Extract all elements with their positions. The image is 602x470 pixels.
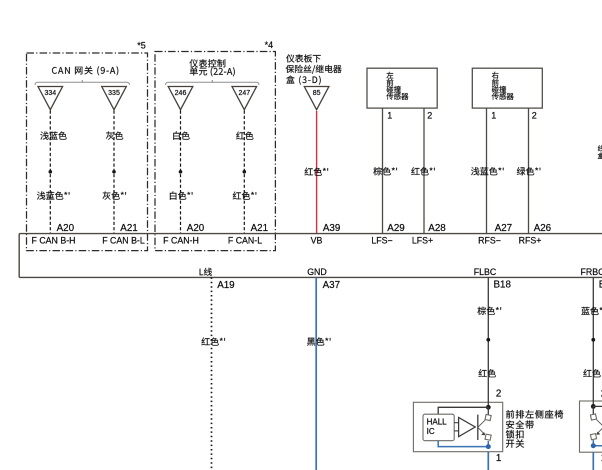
component box: front right seat belt buckle switch (clipped)	[580, 401, 602, 452]
svg-text:A27: A27	[495, 223, 512, 234]
svg-text:F CAN-L: F CAN-L	[228, 236, 262, 246]
label 前排左侧座椅	[506, 410, 563, 419]
blue junction inside right buckle switch	[591, 443, 596, 448]
label HALL IC	[427, 418, 448, 436]
internal wire right (dark)	[593, 405, 602, 407]
net RFS+	[519, 236, 542, 246]
upper contact square	[485, 414, 491, 420]
svg-text:IC: IC	[427, 427, 435, 436]
wire color label 棕色* (FLBC)	[478, 307, 502, 315]
connector cavity 335	[102, 87, 127, 110]
junction on wire 335	[112, 170, 116, 174]
label 右前碰撞传感器 (right)	[492, 72, 514, 100]
wire 247 to A21 (dashed)	[243, 111, 245, 234]
wire junction to right collector contact	[592, 406, 594, 414]
label 仪表板下	[286, 54, 321, 62]
pin label B17 (clipped)	[599, 279, 602, 290]
internal blue wire (hall ic to emitter)	[438, 441, 488, 447]
svg-text:A19: A19	[217, 280, 234, 291]
connector cavity 247	[232, 87, 257, 110]
label 左前碰撞传感器 (left)	[386, 72, 408, 100]
net FRBC	[581, 267, 602, 277]
svg-text:LFS+: LFS+	[412, 236, 433, 246]
wire color label 红色* (LFS+)	[411, 167, 435, 175]
net LFS-	[371, 236, 392, 246]
buffer amplifier triangle	[459, 417, 476, 436]
pin label A39	[323, 223, 340, 234]
label 锁扣	[506, 430, 524, 439]
wire color label 红色*	[233, 192, 256, 200]
svg-text:A20: A20	[57, 223, 75, 234]
svg-text:A29: A29	[387, 223, 404, 234]
svg-text:1: 1	[387, 111, 392, 121]
svg-text:A21: A21	[251, 223, 268, 234]
svg-text:HALL: HALL	[427, 418, 448, 427]
svg-text:A21: A21	[120, 223, 137, 234]
svg-text:F CAN B-H: F CAN B-H	[32, 236, 76, 246]
component box: right front impact sensor	[472, 68, 542, 108]
wire VB (red)	[316, 111, 318, 234]
pin label A29	[387, 223, 404, 234]
label 单元 (22-A)	[190, 67, 235, 76]
blue junction inside buckle switch	[486, 444, 491, 449]
wire 335 to A21 (dashed)	[113, 111, 115, 234]
pin label A26	[534, 223, 552, 234]
wire color label 红色	[236, 132, 253, 140]
junction on wire 246	[179, 170, 183, 174]
pin label A19	[217, 280, 234, 291]
net LFS+	[412, 236, 433, 246]
clipped label 线/盒 (right edge)	[598, 145, 602, 159]
wire RFS-	[486, 108, 488, 233]
net GND	[307, 267, 327, 277]
junction on FRBC wire	[591, 338, 595, 342]
wire color label 绿色* (RFS+)	[517, 167, 541, 175]
pin number 2 (right buckle switch)	[601, 389, 602, 400]
wire FLBC upper	[487, 277, 489, 403]
net F CAN B-H	[32, 236, 76, 246]
label 开关	[506, 439, 524, 447]
wire LFS+	[423, 108, 425, 233]
pin label A28	[428, 223, 446, 234]
net F CAN-L	[228, 236, 262, 246]
wire from right buckle switch pin1 (blue)	[592, 452, 594, 470]
wire color label 红色 (FRBC)	[583, 369, 600, 377]
pin number 2 (left buckle switch)	[496, 389, 501, 400]
wire RFS+	[528, 108, 530, 233]
junction on wire 334	[49, 170, 53, 174]
junction on FLBC wire	[486, 338, 490, 342]
wire junction to collector contact	[487, 407, 489, 415]
wire color label 灰色	[106, 132, 123, 140]
wire into right buckle switch (pin2 stub)	[592, 400, 594, 406]
label 保险丝/继电器	[286, 65, 342, 74]
svg-text:247: 247	[238, 90, 250, 97]
wire color label 浅蓝色	[40, 131, 66, 139]
svg-text:246: 246	[175, 90, 187, 97]
connector bar (gauge control)	[166, 80, 260, 85]
hall IC to amplifier links	[454, 423, 458, 431]
net RFS-	[478, 236, 501, 246]
right internal blue wire	[593, 440, 602, 446]
svg-text:B18: B18	[494, 279, 512, 290]
component box: left front impact sensor	[367, 68, 437, 108]
net FLBC	[474, 267, 497, 277]
wire 334 to A20 (dashed)	[49, 111, 51, 234]
svg-text:A20: A20	[187, 223, 205, 234]
svg-text:RFS+: RFS+	[519, 236, 542, 246]
svg-text:F CAN-H: F CAN-H	[163, 236, 199, 246]
wire color label 红色* (L-line)	[202, 337, 226, 345]
junction inside right buckle switch	[591, 404, 596, 409]
pin label A21 (gauge control)	[251, 223, 268, 234]
pin label A37	[323, 280, 340, 291]
svg-text:A39: A39	[323, 223, 340, 234]
wire into buckle switch (pin2 stub)	[487, 402, 489, 408]
note *4	[265, 40, 274, 50]
svg-text:335: 335	[108, 90, 120, 97]
pin label A21 (CAN gateway)	[120, 223, 137, 234]
wire color label 棕色* (LFS-)	[373, 167, 397, 175]
right lower contact square	[590, 434, 596, 440]
wire L-line (dotted)	[211, 277, 213, 470]
connector cavity 85	[304, 87, 329, 110]
right upper contact square	[590, 414, 596, 420]
wire color label 浅蓝色* (RFS-)	[471, 167, 504, 175]
pin label A27	[495, 223, 512, 234]
svg-text:A28: A28	[428, 223, 446, 234]
pin label B18	[494, 279, 512, 290]
wire color label 浅蓝色*	[37, 191, 70, 199]
switch lead to lower contact with arrow	[478, 427, 486, 435]
wire from buckle switch pin1 (blue)	[487, 452, 489, 470]
connector cavity 246	[168, 87, 193, 110]
svg-text:FRBC: FRBC	[581, 267, 602, 277]
svg-text:1: 1	[496, 453, 501, 464]
pin number 2 (right sensor)	[532, 111, 537, 121]
wire color label 红色* (VB)	[305, 168, 329, 176]
internal wire to HALL IC (dark)	[438, 407, 488, 414]
hall IC box	[423, 414, 454, 441]
svg-text:2: 2	[496, 389, 501, 400]
connector bar (CAN gateway)	[35, 80, 130, 85]
switch lead to upper contact	[478, 420, 485, 427]
component box: gauge control module (dash-dot outline)	[155, 52, 275, 251]
net F CAN B-L	[102, 236, 145, 246]
svg-text:1: 1	[491, 111, 496, 121]
svg-text:FLBC: FLBC	[474, 267, 497, 277]
svg-text:2: 2	[532, 111, 537, 121]
pin number 1 (right sensor)	[491, 111, 496, 121]
right switch leads (clipped)	[596, 420, 602, 435]
svg-text:A37: A37	[323, 280, 340, 291]
wire color label 蓝色* (FRBC)	[581, 307, 602, 315]
wire FRBC upper	[592, 277, 594, 401]
pin number 1 (left buckle switch)	[496, 453, 501, 464]
wire color label 灰色*	[103, 192, 127, 200]
wire color label 黑色* (GND)	[307, 337, 330, 345]
connector cavity 334	[38, 87, 63, 110]
label 安全带	[506, 420, 534, 429]
pin label A20 (CAN gateway)	[57, 223, 75, 234]
pin number 1 (left sensor)	[387, 111, 392, 121]
wire color label 红色 (FLBC)	[479, 369, 496, 377]
svg-text:*4: *4	[265, 40, 274, 50]
wire GND (blue)	[315, 277, 317, 470]
wire color label 白色*	[170, 191, 193, 199]
svg-text:85: 85	[313, 90, 321, 97]
component box: SRS unit (spans page)	[19, 234, 602, 278]
lower contact square	[485, 434, 491, 440]
component box: front left seat belt buckle switch	[413, 402, 502, 451]
net VB	[311, 236, 323, 246]
label 仪表控制	[190, 59, 226, 67]
svg-text:334: 334	[44, 90, 56, 97]
net L线	[200, 268, 212, 276]
junction inside buckle switch	[486, 405, 491, 410]
net F CAN-H	[163, 236, 199, 246]
svg-text:VB: VB	[311, 236, 323, 246]
svg-text:A26: A26	[534, 223, 552, 234]
svg-text:RFS−: RFS−	[478, 236, 501, 246]
label 盒 (3-D)	[286, 76, 320, 85]
pin number 1 (right buckle switch)	[601, 453, 602, 464]
wire 246 to A20 (dashed)	[180, 111, 182, 234]
pin label A20 (gauge control)	[187, 223, 205, 234]
svg-text:F CAN B-L: F CAN B-L	[102, 236, 145, 246]
svg-text:GND: GND	[307, 267, 327, 277]
pin number 2 (left sensor)	[427, 111, 432, 121]
svg-text:LFS−: LFS−	[371, 236, 392, 246]
wire LFS-	[382, 108, 384, 233]
junction on wire 247	[243, 170, 247, 174]
svg-text:2: 2	[427, 111, 432, 121]
switch common bar	[477, 415, 479, 440]
svg-text:*5: *5	[137, 41, 146, 51]
label CAN 网关 (9-A)	[52, 66, 118, 75]
note *5	[137, 41, 146, 51]
component box: CAN gateway unit (dash-dot outline)	[27, 53, 148, 251]
wire color label 白色	[173, 131, 189, 139]
